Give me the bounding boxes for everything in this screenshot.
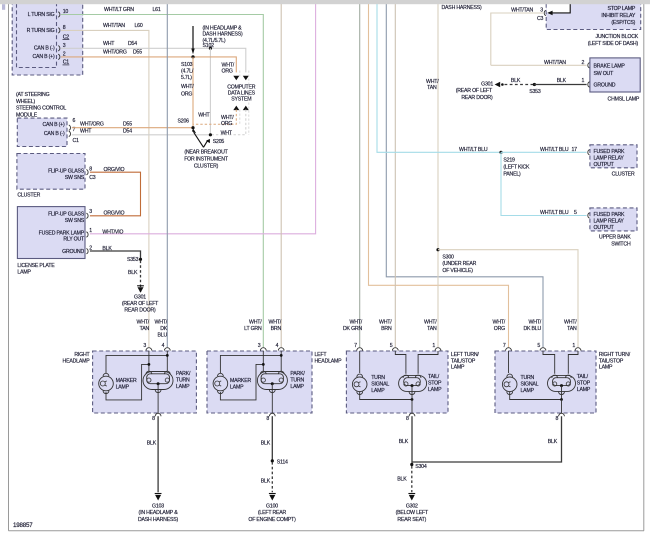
svg-text:(IN HEADLAMP &: (IN HEADLAMP & [139, 510, 179, 516]
LH pin 3 cup [260, 348, 266, 351]
svg-text:8: 8 [89, 166, 92, 172]
svg-text:FLIP-UP GLASS: FLIP-UP GLASS [48, 169, 85, 175]
dashed bracket below left arrow [239, 110, 241, 125]
svg-text:5.7L): 5.7L) [181, 75, 192, 81]
wire WHT/VIO from license pin1 up to top edge [90, 3, 316, 234]
svg-text:GROUND: GROUND [594, 83, 616, 89]
splice S219 dot [499, 151, 502, 154]
svg-text:R TURN SIG: R TURN SIG [27, 28, 55, 34]
module U1 inner connector box [17, 0, 57, 68]
svg-text:TAIL/STOP: TAIL/STOP [599, 358, 624, 364]
svg-text:BLK: BLK [548, 439, 558, 445]
splice S114 dot [271, 459, 274, 462]
svg-text:1: 1 [432, 343, 435, 349]
svg-text:BRN: BRN [271, 326, 282, 332]
LH marker lamp symbol [213, 376, 228, 391]
LH internal wiring [262, 351, 264, 372]
svg-text:(LEFT KICK: (LEFT KICK [503, 164, 530, 170]
svg-text:S219: S219 [503, 158, 515, 164]
svg-text:DASH HARNESS): DASH HARNESS) [138, 517, 179, 523]
svg-text:TURN: TURN [371, 375, 385, 381]
RH pin 3 cup [146, 348, 152, 351]
svg-text:BLK: BLK [147, 440, 157, 446]
svg-text:STEERING CONTROL: STEERING CONTROL [16, 106, 66, 112]
svg-text:4: 4 [276, 343, 279, 349]
svg-text:LEFT TURN/: LEFT TURN/ [451, 352, 480, 358]
RH bulb tap to pin 8 [157, 392, 159, 413]
svg-text:S300: S300 [442, 254, 454, 260]
relay K1 stop lamp inhibit relay box [546, 0, 641, 30]
RL tail/stop bulb [399, 375, 427, 391]
splice S102 dot [209, 47, 212, 50]
cluster relay pin socket [588, 150, 590, 155]
ground G302 symbol [408, 494, 415, 501]
diagram frame bottom border [9, 530, 645, 532]
svg-text:HEADLAMP: HEADLAMP [63, 358, 91, 364]
ground G301 symbol (left) [137, 286, 144, 293]
svg-text:WHT/TAN: WHT/TAN [511, 7, 533, 13]
svg-text:SW OUT: SW OUT [594, 71, 615, 77]
svg-text:BRN: BRN [381, 326, 392, 332]
CHMSL lamp box [590, 58, 640, 92]
svg-text:ORG/VIO: ORG/VIO [104, 210, 125, 216]
svg-text:L TURN SIG: L TURN SIG [28, 12, 55, 18]
svg-text:WHT: WHT [198, 112, 210, 118]
svg-text:(REAR OF LEFT: (REAR OF LEFT [122, 301, 159, 307]
svg-text:G103: G103 [152, 503, 164, 509]
wire WHT/TAN branch S300 to right rear pin1 [438, 250, 578, 348]
svg-text:TAIL/: TAIL/ [577, 374, 589, 380]
pin 10 socket [58, 12, 60, 17]
svg-text:FOR INSTRUMENT: FOR INSTRUMENT [184, 156, 229, 162]
svg-text:TURN: TURN [290, 378, 304, 384]
wire WHT D54 steering to S205 [72, 134, 211, 136]
wire WHT/DK GRN to left rear pin7 [359, 3, 361, 348]
svg-text:OUTPUT: OUTPUT [594, 162, 615, 168]
svg-text:WHT/LT BLU: WHT/LT BLU [459, 147, 488, 153]
RL pin 1 cup [435, 348, 441, 351]
wire WHT/ORG to right rear pin7 [369, 3, 509, 348]
steering pin 7 socket [69, 131, 71, 136]
wire BLK dashed G301 to S353 (right) [505, 84, 534, 86]
svg-text:LAMP: LAMP [371, 388, 385, 394]
svg-text:HEADLAMP: HEADLAMP [315, 358, 343, 364]
wire BLK from license pin2 to S353 [90, 251, 141, 259]
svg-text:WHT/: WHT/ [249, 319, 262, 325]
relay internal white notch [547, 3, 570, 13]
svg-text:6: 6 [73, 118, 76, 124]
svg-text:3: 3 [540, 7, 543, 13]
license plate lamp box [17, 207, 85, 259]
wire BLK RL pin8 to S304 [411, 416, 413, 464]
ground G301 arrow (right) [495, 82, 504, 88]
svg-text:LEFT: LEFT [315, 352, 328, 358]
svg-text:CAN B (+): CAN B (+) [43, 122, 65, 128]
fused park lamp relay output box (cluster) [590, 145, 637, 168]
svg-text:G301: G301 [134, 294, 146, 300]
svg-text:LAMP: LAMP [17, 270, 31, 276]
RL pin 7 cup [357, 348, 363, 351]
svg-text:S205: S205 [213, 139, 225, 145]
svg-text:G302: G302 [406, 503, 418, 509]
svg-text:DK: DK [160, 326, 168, 332]
svg-text:S102: S102 [203, 43, 215, 49]
splice S205 dot [209, 133, 212, 136]
svg-text:7: 7 [503, 343, 506, 349]
svg-text:PARK/: PARK/ [176, 371, 191, 377]
right headlamp box [93, 351, 197, 413]
wire BLK dashed S114 to G100 [271, 462, 273, 492]
diagram frame left border [8, 3, 10, 531]
svg-text:C3: C3 [89, 175, 96, 181]
svg-text:SWITCH: SWITCH [611, 241, 631, 247]
dashed WHT return to S205 [210, 110, 245, 135]
svg-text:SIGNAL: SIGNAL [521, 382, 539, 388]
svg-text:S304: S304 [415, 464, 427, 470]
svg-text:WHT/: WHT/ [379, 319, 392, 325]
splice S353 dot (left) [139, 258, 142, 261]
wire WHT/LT BLU from top to S219 [377, 3, 501, 153]
switch pin socket [588, 213, 590, 218]
svg-text:CLUSTER: CLUSTER [17, 193, 40, 199]
svg-text:WHT/: WHT/ [564, 319, 577, 325]
svg-text:TAIL/STOP: TAIL/STOP [451, 358, 476, 364]
right rear lamp box [495, 351, 596, 413]
svg-text:D54: D54 [123, 128, 132, 134]
svg-text:RIGHT TURN/: RIGHT TURN/ [599, 352, 631, 358]
computer data lines down-arrow WHT [243, 76, 249, 81]
svg-text:WHT/: WHT/ [222, 62, 235, 68]
svg-text:BLK: BLK [399, 439, 409, 445]
svg-text:WHT/LT BLU: WHT/LT BLU [540, 210, 569, 216]
partial icon at top-left edge [2, 4, 5, 10]
svg-text:WHT/: WHT/ [493, 319, 506, 325]
svg-text:CAN B (+): CAN B (+) [33, 54, 55, 60]
svg-text:(LEFT SIDE OF DASH): (LEFT SIDE OF DASH) [588, 41, 639, 47]
svg-text:WHT/TAN: WHT/TAN [544, 60, 566, 66]
svg-text:WHT/: WHT/ [350, 319, 363, 325]
svg-text:WHT/TAN: WHT/TAN [103, 23, 125, 29]
svg-text:WHT/ORG: WHT/ORG [103, 50, 127, 56]
svg-text:TAN: TAN [427, 85, 437, 91]
module U1 outer box (top-left, cut off) [12, 0, 83, 75]
svg-text:LAMP: LAMP [176, 384, 190, 390]
svg-text:SYSTEM: SYSTEM [231, 96, 251, 102]
wire D54 WHT from U1 pin3 to computer data lines down-arrow [61, 48, 246, 72]
svg-text:RIGHT: RIGHT [74, 352, 90, 358]
svg-text:1: 1 [582, 78, 585, 84]
svg-text:7: 7 [354, 343, 357, 349]
svg-text:TAN: TAN [140, 326, 150, 332]
svg-text:TAIL/: TAIL/ [428, 374, 440, 380]
leader line from S102 note to S103 splice [192, 26, 194, 51]
svg-text:MARKER: MARKER [230, 378, 251, 384]
svg-text:STOP LAMP: STOP LAMP [607, 6, 635, 12]
CHMSL pin 1 socket [588, 82, 590, 87]
svg-text:WHT/: WHT/ [529, 319, 542, 325]
dashed bracket right of arrows 2 [248, 71, 250, 136]
svg-text:DASH HARNESS): DASH HARNESS) [442, 5, 483, 11]
top window strip (cropped app chrome) [0, 0, 650, 4]
svg-text:OUTPUT: OUTPUT [594, 225, 615, 231]
svg-text:3: 3 [89, 209, 92, 215]
wire WHT/LT BLU S219 to cluster relay output [501, 151, 587, 153]
svg-text:(IN HEADLAMP &: (IN HEADLAMP & [203, 25, 243, 31]
svg-text:(NEAR BREAKOUT: (NEAR BREAKOUT [184, 150, 228, 156]
svg-text:WHT/LT BLU: WHT/LT BLU [540, 147, 569, 153]
RR pin 8 cup [559, 413, 565, 416]
svg-text:C3: C3 [537, 16, 544, 22]
RR pin 1 cup [575, 348, 581, 351]
wire WHT/TAN trunk to left rear pin1 [437, 3, 439, 348]
wire BLK S353 to CHMSL pin1 [534, 84, 586, 86]
svg-text:5: 5 [574, 210, 577, 216]
svg-text:L61: L61 [153, 7, 161, 13]
fused park lamp relay output box (upper bank switch) [590, 208, 637, 231]
wire BLK LH pin8 to S114 [271, 416, 273, 460]
svg-text:ORG: ORG [222, 69, 233, 75]
relay internal arrowhead [547, 11, 552, 16]
svg-text:2: 2 [582, 60, 585, 66]
svg-text:LAMP: LAMP [116, 384, 130, 390]
splice S300 dot [436, 248, 439, 251]
dashed WHT/ORG return to S206 [193, 110, 236, 125]
svg-text:BRAKE LAMP: BRAKE LAMP [594, 64, 626, 70]
wire BLK dashed S353 to G301 [140, 261, 142, 293]
svg-text:LAMP: LAMP [428, 387, 442, 393]
svg-text:OF VEHICLE): OF VEHICLE) [442, 268, 473, 274]
svg-text:1: 1 [89, 228, 92, 234]
svg-text:CLUSTER: CLUSTER [612, 172, 635, 178]
svg-text:LICENSE PLATE: LICENSE PLATE [17, 263, 55, 269]
svg-text:(LEFT REAR: (LEFT REAR [258, 510, 287, 516]
svg-text:1: 1 [572, 343, 575, 349]
svg-text:LAMP: LAMP [599, 365, 613, 371]
wire WHT/DK BLU to right headlamp pin4 [166, 3, 168, 348]
LH pin 4 cup [278, 348, 284, 351]
svg-text:(4.7L/: (4.7L/ [181, 68, 194, 74]
RL pin 5 cup [392, 348, 398, 351]
relay pin 3 socket [544, 10, 546, 15]
wire D55 WHT/ORG from U1 pin2 to computer data lines down-arrow [61, 57, 236, 73]
dashed bracket right of arrows 1 [239, 71, 241, 77]
svg-text:TAN: TAN [427, 326, 437, 332]
svg-text:JUNCTION BLOCK: JUNCTION BLOCK [596, 34, 639, 40]
svg-text:S103: S103 [181, 62, 193, 68]
wire ORG/VIO loop from cluster pin8 to license lamp pin3 [90, 172, 141, 216]
svg-text:8: 8 [152, 416, 155, 422]
svg-text:BLK: BLK [511, 78, 521, 84]
svg-text:5: 5 [390, 343, 393, 349]
svg-text:WHT/VIO: WHT/VIO [102, 229, 123, 235]
svg-text:L60: L60 [135, 23, 143, 29]
pin 2 socket [58, 54, 60, 59]
svg-text:WHT/: WHT/ [426, 79, 439, 85]
wire WHT/BRN to left headlamp pin4 [280, 3, 282, 348]
svg-text:D55: D55 [133, 50, 142, 56]
RR pin 5 cup [540, 348, 546, 351]
pin 3 socket [58, 46, 60, 51]
svg-text:17: 17 [572, 147, 578, 153]
computer data lines up-arrow WHT [243, 106, 249, 111]
svg-text:FLIP-UP GLASS: FLIP-UP GLASS [48, 212, 85, 218]
svg-text:WHT/: WHT/ [137, 319, 150, 325]
svg-text:TURN: TURN [176, 378, 190, 384]
svg-text:MARKER: MARKER [116, 378, 137, 384]
leader V from note to S206 [194, 132, 204, 147]
wire WHT/LT BLU S219 down to upper bank switch [501, 152, 587, 215]
svg-text:DK GRN: DK GRN [343, 326, 362, 332]
svg-text:WHT/LT GRN: WHT/LT GRN [104, 7, 134, 13]
RR tail/stop bulb [548, 375, 576, 391]
RH pin 4 cup [164, 348, 170, 351]
RH marker lamp symbol [99, 376, 114, 391]
svg-text:LAMP: LAMP [230, 384, 244, 390]
svg-text:D54: D54 [128, 41, 137, 47]
svg-text:198857: 198857 [13, 522, 33, 529]
svg-text:LAMP RELAY: LAMP RELAY [594, 155, 625, 161]
svg-text:3: 3 [258, 343, 261, 349]
svg-text:REAR DOOR): REAR DOOR) [461, 95, 493, 101]
svg-text:WHT/: WHT/ [424, 319, 437, 325]
svg-text:S353: S353 [529, 89, 541, 95]
svg-text:(AT STEERING: (AT STEERING [16, 92, 50, 98]
svg-text:RLY OUT: RLY OUT [63, 237, 85, 243]
splice S304 dot [410, 463, 413, 466]
svg-text:SW SNS: SW SNS [65, 175, 85, 181]
wire BLK RR pin8 joining S304 [412, 416, 562, 462]
svg-text:LAMP: LAMP [577, 387, 591, 393]
svg-text:CAN B (-): CAN B (-) [34, 46, 55, 52]
svg-text:PARK/: PARK/ [290, 371, 305, 377]
steering pin 6 socket [69, 125, 71, 130]
ground G103 symbol [155, 494, 162, 501]
wire WHT/ORG D55 steering to S206 [72, 127, 193, 129]
leader V to S205 [204, 140, 208, 147]
LH pin 8 cup [269, 413, 275, 416]
relay internal contact lines [549, 3, 571, 13]
cluster flip-up glass box [17, 154, 85, 190]
wire L60 WHT/TAN from U1 pin8 to right headlamp pin3 [61, 30, 149, 347]
pin 8 socket [58, 28, 60, 33]
svg-text:ORG: ORG [494, 326, 505, 332]
wire WHT/BRN to left rear pin5 [394, 3, 396, 348]
svg-text:C1: C1 [73, 138, 80, 144]
svg-text:FUSED PARK: FUSED PARK [594, 149, 626, 155]
CHMSL pin 2 socket [588, 63, 590, 68]
svg-text:S353: S353 [127, 257, 139, 263]
wire WHT/TAN to CHMSL pin2 [491, 64, 587, 66]
leader arrowhead [191, 49, 194, 55]
svg-text:CHMSL LAMP: CHMSL LAMP [608, 96, 640, 102]
wire WHT/TAN to stop lamp inhibit relay pin3 [491, 13, 543, 65]
svg-text:S206: S206 [178, 119, 190, 125]
ground G100 symbol [269, 494, 276, 501]
RR internal wiring and turn signal lamp [508, 351, 510, 373]
svg-text:3: 3 [143, 343, 146, 349]
license pin 2 socket [86, 249, 88, 254]
svg-text:WHT: WHT [221, 130, 233, 136]
svg-text:(BELOW LEFT: (BELOW LEFT [396, 510, 429, 516]
svg-text:DASH HARNESS): DASH HARNESS) [203, 32, 244, 38]
svg-text:G100: G100 [266, 503, 278, 509]
leader V arrowhead S205 [206, 139, 210, 143]
license pin 1 socket [86, 232, 88, 237]
svg-text:FUSED PARK: FUSED PARK [594, 212, 626, 218]
splice S206 dot [191, 126, 194, 129]
svg-text:LAMP RELAY: LAMP RELAY [594, 218, 625, 224]
svg-text:G301: G301 [481, 82, 493, 88]
svg-text:4: 4 [162, 343, 165, 349]
leader V arrowhead S206 [192, 129, 196, 134]
svg-text:BLU: BLU [158, 332, 168, 338]
svg-text:TAN: TAN [567, 326, 577, 332]
LH bulb tap to pin 8 [271, 392, 273, 413]
svg-text:STOP: STOP [577, 381, 591, 387]
svg-text:8: 8 [266, 416, 269, 422]
svg-text:WHT: WHT [103, 41, 115, 47]
svg-text:D55: D55 [123, 121, 132, 127]
svg-text:ORG: ORG [221, 121, 232, 127]
svg-text:(ESP/TCS): (ESP/TCS) [611, 20, 635, 26]
svg-text:TURN: TURN [521, 375, 535, 381]
svg-text:BLK: BLK [557, 78, 567, 84]
svg-text:REAR SEAT): REAR SEAT) [397, 517, 426, 523]
svg-text:ORG/VIO: ORG/VIO [104, 167, 125, 173]
svg-text:MODULE: MODULE [16, 112, 38, 118]
steering control module box [17, 118, 67, 146]
computer data lines down-arrow WHT/ORG [233, 76, 239, 81]
RL pin 8 cup [409, 413, 415, 416]
svg-text:(REAR OF LEFT: (REAR OF LEFT [456, 88, 493, 94]
svg-text:LT GRN: LT GRN [244, 326, 262, 332]
wire WHT/ORG vertical from S103 to S206 [192, 57, 194, 128]
svg-text:S114: S114 [277, 460, 288, 466]
svg-text:WHT/: WHT/ [269, 319, 282, 325]
svg-text:STOP: STOP [428, 381, 442, 387]
wire WHT vertical from S102 to S205 [209, 48, 211, 135]
svg-text:8: 8 [406, 416, 409, 422]
svg-text:LAMP: LAMP [451, 365, 465, 371]
svg-text:LAMP: LAMP [290, 384, 304, 390]
RR pin 7 cup [506, 348, 512, 351]
svg-text:OF ENGINE COMPT): OF ENGINE COMPT) [248, 517, 296, 523]
wire L61 WHT/LT GRN from U1 pin10 to left headlamp pin3 [61, 15, 263, 348]
svg-text:LAMP: LAMP [521, 388, 535, 394]
svg-text:WHT/: WHT/ [155, 319, 168, 325]
RH internal wiring [148, 351, 150, 372]
svg-text:ORG: ORG [181, 91, 192, 97]
svg-text:BLK: BLK [261, 479, 271, 485]
cluster pin 8 socket [86, 170, 88, 175]
svg-text:SW SNS: SW SNS [65, 218, 85, 224]
svg-text:WHT/: WHT/ [181, 84, 194, 90]
svg-text:WHT: WHT [80, 128, 92, 134]
svg-text:CLUSTER): CLUSTER) [194, 163, 219, 169]
svg-text:BLK: BLK [397, 477, 407, 483]
left rear lamp box [346, 351, 448, 413]
LH park/turn bulb [257, 372, 287, 390]
svg-text:GROUND: GROUND [62, 249, 84, 255]
svg-text:8: 8 [556, 416, 559, 422]
wire BLK dashed S304 to G302 [411, 466, 413, 492]
left headlamp box [207, 351, 312, 413]
svg-text:WHEEL): WHEEL) [16, 99, 35, 105]
svg-text:WHT/ORG: WHT/ORG [80, 121, 104, 127]
RH pin 8 cup [155, 413, 161, 416]
svg-text:BLK: BLK [102, 246, 112, 252]
svg-text:(UNDER REAR: (UNDER REAR [442, 261, 476, 267]
